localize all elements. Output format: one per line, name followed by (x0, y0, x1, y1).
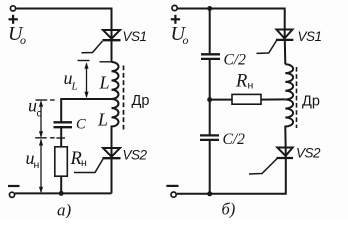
thyristor VS2 (249, 148, 293, 175)
label C/2 (upper) (224, 52, 247, 69)
wire VS2 cathode to bottom rail (111, 158, 113, 193)
wire bottom rail (15, 192, 112, 194)
svg-text:н: н (248, 80, 254, 92)
label U0 (8, 23, 26, 47)
dimension arrow u_L (84, 62, 88, 98)
label VS1 (123, 29, 147, 44)
wire VS1 cathode to choke (284, 40, 287, 64)
label u_n (26, 148, 40, 171)
svg-text:VS1: VS1 (298, 29, 322, 44)
label C (76, 117, 86, 133)
wire VS1 cathode to choke (111, 40, 113, 62)
capacitor C/2 (lower) (200, 135, 219, 140)
terminal + (top left) (10, 6, 15, 11)
junction node (middle / Rn branch) (207, 97, 212, 102)
svg-text:R: R (70, 149, 82, 169)
label VS2 (296, 146, 321, 161)
dimension arrow u_n (39, 139, 43, 193)
thyristor VS2 (74, 148, 121, 173)
svg-text:н: н (81, 157, 87, 169)
label VS2 (123, 148, 148, 163)
label u_L (64, 68, 78, 93)
wire C branch middle (209, 59, 211, 135)
label U0 (171, 23, 189, 47)
plus sign (171, 15, 180, 24)
resistor Rn (load) (55, 147, 68, 176)
wire resistor to bottom rail (60, 176, 62, 193)
svg-text:Др: Др (302, 94, 320, 110)
label Rn (235, 72, 254, 92)
minus sign (8, 185, 20, 187)
label VS1 (298, 29, 322, 44)
terminal + (top right) (172, 5, 177, 10)
capacitor C/2 (upper) (201, 54, 220, 59)
label Dr (302, 94, 320, 110)
resistor Rn (load) (232, 94, 261, 104)
label u_c (28, 96, 42, 120)
svg-text:б): б) (222, 200, 236, 219)
terminal - (bottom left) (9, 192, 14, 197)
wire top (terminal to VS1 anode) (15, 9, 111, 41)
svg-text:L: L (71, 81, 78, 93)
svg-text:о: о (183, 33, 189, 47)
dimension ticks u_c top (36, 99, 55, 101)
svg-text:VS2: VS2 (296, 146, 321, 161)
label Dr (132, 93, 150, 109)
choke core bar (123, 66, 125, 130)
svg-text:а): а) (57, 201, 72, 219)
label b) (222, 200, 236, 219)
svg-text:VS2: VS2 (123, 148, 148, 163)
junction node (bottom rail / C branch) (207, 191, 212, 196)
label C/2 (lower) (223, 131, 246, 148)
svg-text:C/2: C/2 (224, 52, 247, 69)
capacitor C (54, 122, 73, 127)
inductor Dr lower winding L (112, 99, 119, 157)
label L (lower) (97, 110, 108, 130)
svg-text:н: н (34, 159, 40, 171)
svg-text:C/2: C/2 (223, 131, 246, 148)
inductor Dr winding (lower 3 turns) (285, 100, 293, 159)
junction node (Rn / bottom rail) (59, 191, 64, 196)
wire C branch upper (209, 9, 211, 55)
svg-text:C: C (76, 117, 86, 133)
junction node (top / C branch) (207, 6, 212, 11)
thyristor VS1 (82, 30, 121, 53)
minus sign (166, 185, 178, 187)
svg-text:L: L (97, 110, 108, 130)
svg-text:VS1: VS1 (123, 29, 147, 44)
label L (upper) (99, 73, 110, 93)
inductor Dr upper winding L (112, 62, 119, 99)
svg-text:с: с (37, 108, 42, 120)
plus sign (9, 15, 18, 24)
svg-text:о: о (20, 33, 26, 47)
thyristor VS1 (257, 30, 294, 54)
wire top (terminal to VS1 anode) (177, 9, 285, 40)
svg-text:L: L (99, 73, 110, 93)
inductor Dr winding (upper 4 turns) (285, 64, 293, 99)
terminal - (bottom right) (171, 192, 176, 197)
svg-text:R: R (235, 72, 247, 92)
dimension arrow u_c (39, 100, 43, 138)
label Rn (70, 149, 88, 169)
wire tap (choke centre to capacitor branch) (61, 99, 111, 122)
wire C branch lower (209, 140, 211, 194)
wire Rn branch right (to choke tap) (261, 98, 285, 100)
wire Rn branch left (210, 99, 232, 101)
dimension ticks u_L top (78, 61, 112, 62)
dimension ticks u_c bottom / u_n top (35, 137, 65, 139)
label a) (57, 201, 72, 220)
wire VS2 cathode to bottom rail (177, 158, 286, 194)
choke core bar (296, 67, 298, 128)
wire capacitor to resistor (60, 127, 62, 147)
svg-text:Др: Др (132, 93, 150, 109)
